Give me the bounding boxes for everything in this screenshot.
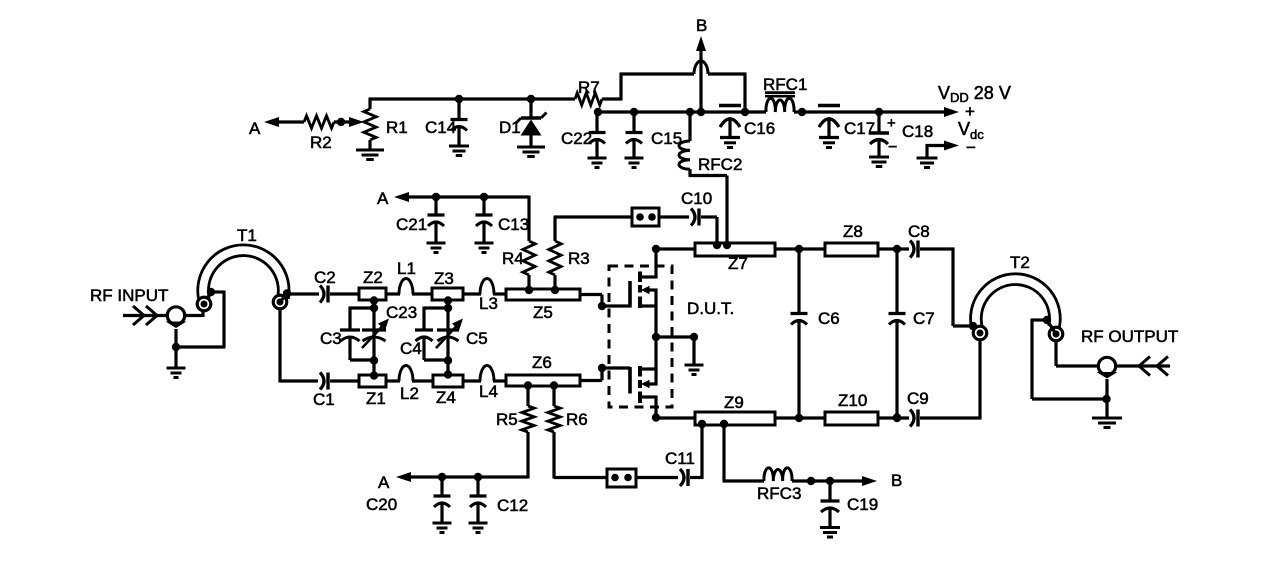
transistor Q1 drain lead <box>640 249 656 279</box>
svg-text:R4: R4 <box>502 249 524 268</box>
junction dot RFC2 <box>686 108 694 116</box>
inductor L3 <box>463 279 506 314</box>
junction dot T1 right tap <box>283 289 291 297</box>
wire output to ground <box>1105 379 1108 418</box>
transistor Q2 body arrow <box>641 369 658 388</box>
resistor R6 <box>548 387 588 479</box>
svg-text:Z9: Z9 <box>724 393 744 412</box>
feedthrough capacitor C16 <box>719 106 775 148</box>
wire C3 branch bottom <box>350 359 374 361</box>
wire T1 right down to C1 <box>280 308 318 383</box>
svg-text:T1: T1 <box>237 226 257 245</box>
svg-text:C1: C1 <box>313 390 335 409</box>
inductor RFC3 <box>757 468 801 503</box>
svg-text:Z7: Z7 <box>728 254 748 273</box>
wire DUT to Z7 <box>656 247 695 250</box>
svg-text:C15: C15 <box>651 129 682 148</box>
capacitor C3 <box>320 329 360 360</box>
ground below C21 <box>427 243 446 253</box>
svg-text:R6: R6 <box>566 410 588 429</box>
junction dot Z3 bottom <box>444 296 452 304</box>
transistor Q2 gate bar <box>628 367 632 394</box>
svg-text:C21: C21 <box>396 215 427 234</box>
wire Z9 to Z10 <box>775 416 825 419</box>
junction dot Z1 top <box>370 371 378 379</box>
svg-text:Z2: Z2 <box>363 268 383 287</box>
impedance Z2 <box>359 268 386 300</box>
Vdc negative ground arrow <box>917 141 960 168</box>
junction dot RFC3 out <box>807 477 815 485</box>
svg-text:C6: C6 <box>818 309 840 328</box>
capacitor C18 (electrolytic) <box>869 112 933 156</box>
wire C3 branch top <box>349 307 374 331</box>
junction dot C20 <box>438 473 446 481</box>
inductor L2 <box>386 366 433 404</box>
capacitor C10 <box>659 189 717 244</box>
VDD terminal arrow <box>938 83 1011 121</box>
svg-text:C19: C19 <box>847 495 878 514</box>
junction dot Q2 drain <box>652 413 660 421</box>
transistor Q1 channel <box>638 272 642 309</box>
wire Z3 to Z4 (C5 branch) <box>446 300 449 375</box>
junction dot C18 <box>875 108 883 116</box>
ground below C14 <box>449 146 469 156</box>
junction dot R3-Z5 <box>551 286 559 294</box>
wire T1 right center tap <box>280 294 287 303</box>
svg-text:C7: C7 <box>913 309 935 328</box>
junction dot C6 bottom <box>795 414 803 422</box>
impedance Z10 <box>825 391 878 425</box>
DUT dashed box <box>609 266 672 407</box>
transistor Q1 source lead <box>640 304 656 307</box>
svg-text:R2: R2 <box>310 133 332 152</box>
svg-text:L3: L3 <box>479 294 498 313</box>
junction dot T1 left tap <box>207 288 215 296</box>
capacitor C9 <box>907 389 929 427</box>
wire Z7 to Z8 <box>775 247 825 250</box>
impedance Z6 <box>506 353 580 386</box>
wire top bias rail <box>369 97 576 100</box>
svg-text:Z4: Z4 <box>436 388 456 407</box>
ground below C20 <box>433 523 452 533</box>
node A (top left arrow) <box>249 117 304 138</box>
junction dot Q1 drain <box>652 245 660 253</box>
capacitor C12 <box>470 477 529 522</box>
junction dot RFC2-Z7 <box>723 241 731 249</box>
ground below C18 <box>869 157 889 167</box>
impedance Z9 <box>695 393 775 425</box>
transformer T2 left terminal <box>973 326 987 340</box>
svg-text:+: + <box>887 115 896 132</box>
junction dot source ground <box>690 333 698 341</box>
ground below C19 <box>820 528 840 538</box>
junction dot common source <box>652 333 660 341</box>
Vdc label <box>958 119 984 157</box>
ground below C15 <box>625 158 644 168</box>
wire VDD rail right <box>794 110 951 113</box>
ground below D1 <box>517 147 545 157</box>
svg-text:C17: C17 <box>844 119 875 138</box>
wire source to ground <box>656 335 694 338</box>
node B (top arrow) <box>696 16 707 112</box>
svg-text:RFC1: RFC1 <box>763 75 807 94</box>
svg-text:C22: C22 <box>561 129 592 148</box>
wire Z8 to C8 <box>878 247 909 250</box>
feedthrough capacitor C17 <box>818 106 875 148</box>
transformer T1 left terminal <box>197 297 211 311</box>
resistor R1 (vertical) <box>364 99 408 149</box>
wire T2 right center tap <box>1047 320 1056 334</box>
svg-text:A: A <box>378 473 390 492</box>
junction dot C9 left <box>893 414 901 422</box>
svg-text:RFC2: RFC2 <box>698 155 742 174</box>
svg-text:L4: L4 <box>479 382 498 401</box>
node B (bottom arrow) <box>862 471 902 490</box>
RF input connector base triangle <box>166 322 187 329</box>
transistor Q1 gate bar <box>628 281 632 308</box>
inductor RFC2 <box>679 112 742 244</box>
junction dot R5-Z6 <box>524 381 532 389</box>
junction dot C15 <box>630 108 638 116</box>
junction dot Z2 bottom <box>370 296 378 304</box>
wire input circle to T1 <box>185 308 204 317</box>
junction dot C7 top <box>893 245 901 253</box>
ferrite bead (gate) <box>632 208 659 226</box>
capacitor C15 <box>626 112 683 157</box>
junction dot R4-Z5 <box>525 286 533 294</box>
junction dot C4 branch top <box>444 304 452 312</box>
impedance Z1 <box>359 375 386 408</box>
RF output connector base triangle <box>1097 372 1118 379</box>
variable capacitor C23 <box>362 303 417 348</box>
wire T2 right down to output <box>1056 340 1098 366</box>
svg-text:C13: C13 <box>498 215 529 234</box>
svg-text:B: B <box>696 16 707 35</box>
svg-text:R1: R1 <box>386 118 408 137</box>
wire RFC3 to B <box>792 479 866 482</box>
capacitor C7 <box>889 249 935 418</box>
node A (mid arrow) <box>377 189 529 208</box>
svg-text:A: A <box>249 119 261 138</box>
svg-text:Z3: Z3 <box>434 269 454 288</box>
ground DUT source <box>685 365 704 375</box>
svg-text:R3: R3 <box>568 249 590 268</box>
svg-text:Z1: Z1 <box>366 389 386 408</box>
wire R2 to R1 wiper <box>334 120 352 123</box>
svg-text:RFC3: RFC3 <box>757 484 801 503</box>
RF output line with chevrons <box>1116 357 1171 376</box>
RF input connector circle <box>167 307 184 324</box>
capacitor C14 <box>425 99 468 146</box>
svg-text:RF INPUT: RF INPUT <box>90 286 168 305</box>
diode D1 (zener) <box>499 99 547 146</box>
variable capacitor C5 <box>436 319 488 349</box>
svg-text:B: B <box>891 471 902 490</box>
capacitor C21 <box>396 197 445 242</box>
junction dot C3 branch bottom <box>370 356 378 364</box>
svg-text:C5: C5 <box>466 329 488 348</box>
capacitor C20 <box>366 477 451 522</box>
resistor R2 <box>304 116 334 152</box>
wire C11 up to Z9 <box>700 424 703 479</box>
junction dot Z4 top <box>444 370 452 378</box>
wire tap to T2 left center <box>973 326 980 332</box>
junction dot T2 left tap <box>969 322 977 330</box>
capacitor C2 <box>314 268 359 303</box>
RF OUTPUT label <box>1081 327 1178 346</box>
ferrite bead (output) <box>607 469 636 487</box>
svg-text:RF OUTPUT: RF OUTPUT <box>1081 327 1178 346</box>
capacitor C1 <box>313 373 359 410</box>
junction dot after RFC1 <box>798 108 806 116</box>
svg-text:C9: C9 <box>907 389 929 408</box>
RF INPUT label <box>90 286 168 305</box>
resistor R7 <box>575 78 602 105</box>
junction dot C14 top <box>455 95 463 103</box>
wire C4 branch bottom <box>424 358 448 361</box>
junction dot C7 bottom <box>893 413 901 421</box>
capacitor C22 <box>561 112 606 157</box>
svg-text:C12: C12 <box>497 496 528 515</box>
svg-text:R5: R5 <box>496 410 518 429</box>
transformer T2 coax loop <box>976 253 1055 328</box>
svg-text:D.U.T.: D.U.T. <box>687 299 734 318</box>
impedance Z4 <box>433 375 463 407</box>
wire C9 to T2 shield <box>920 416 982 419</box>
junction dot C13 <box>480 193 488 201</box>
junction dot Z9 tap 1 <box>698 420 706 428</box>
svg-text:Z8: Z8 <box>843 222 863 241</box>
impedance Z5 <box>506 289 580 322</box>
transistor Q1 body arrow <box>641 286 658 337</box>
capacitor C11 <box>636 449 702 486</box>
svg-text:C4: C4 <box>400 339 422 358</box>
svg-text:L2: L2 <box>400 384 419 403</box>
wire tap to T1 left center <box>205 292 212 303</box>
ground below C12 <box>469 523 488 533</box>
ground below C13 <box>475 243 494 253</box>
wire Z6 to DUT gate 2 <box>580 368 630 381</box>
junction dot input ground <box>172 343 180 351</box>
wire Z5 to DUT gate 1 <box>580 295 630 307</box>
junction dot C4 branch bottom <box>444 356 452 364</box>
wire input return loop <box>176 291 226 348</box>
RF output connector circle <box>1098 357 1115 374</box>
wire down to DUT ground <box>692 337 695 364</box>
transformer T1 coax loop <box>203 226 284 299</box>
junction dot gate 1 <box>598 302 606 310</box>
resistor R4 <box>502 196 535 292</box>
svg-text:C11: C11 <box>665 449 695 468</box>
junction dot Z9 tap 2 <box>720 420 728 428</box>
junction dot D1 top <box>527 95 535 103</box>
ground below R1 <box>356 150 384 160</box>
transistor Q2 source lead <box>640 337 656 371</box>
junction dot C6 top <box>795 245 803 253</box>
junction dot B wire <box>697 108 705 116</box>
junction dot C21 <box>432 193 440 201</box>
capacitor C19 <box>821 481 879 527</box>
resistor R3 <box>549 216 590 292</box>
ground RF input <box>167 368 186 378</box>
capacitor C13 <box>476 197 530 242</box>
resistor R5 <box>496 387 534 479</box>
junction dot C19 top <box>826 477 834 485</box>
svg-text:Z6: Z6 <box>532 353 552 372</box>
wire Z2 to Z1 (C23 branch) <box>372 300 375 376</box>
svg-text:L1: L1 <box>397 259 416 278</box>
wire T1 to C2 <box>287 292 319 295</box>
wire R6 to bead <box>554 476 607 479</box>
wire input to ground <box>174 329 177 367</box>
junction dot R2-R1 <box>337 118 345 126</box>
wire Z9 to RFC3 <box>723 424 765 481</box>
capacitor C6 <box>791 249 840 418</box>
junction dot C12 <box>474 473 482 481</box>
svg-text:C3: C3 <box>320 329 342 348</box>
junction dot C10-Z7 <box>713 241 721 249</box>
svg-text:C23: C23 <box>386 303 417 322</box>
svg-text:C16: C16 <box>744 119 775 138</box>
wire T2 tap return <box>1032 319 1107 400</box>
wire R7 to loop over B <box>602 61 747 112</box>
transformer T1 right terminal <box>273 295 287 309</box>
junction dot loop join <box>741 108 749 116</box>
svg-text:T2: T2 <box>1010 253 1030 272</box>
node A (bottom arrow) <box>378 472 528 492</box>
impedance Z8 <box>825 222 878 256</box>
svg-text:C20: C20 <box>366 495 397 514</box>
junction dot T2 right tap <box>1043 316 1051 324</box>
wire R3 to ferrite bead <box>555 215 632 218</box>
junction dot gate 2 <box>598 364 606 372</box>
RF input line with chevrons <box>123 306 168 325</box>
wire C4 branch top <box>424 307 448 331</box>
capacitor C4 <box>400 330 433 360</box>
svg-text:C18: C18 <box>902 122 933 141</box>
wiper arrow into R1 <box>349 117 364 127</box>
svg-text:Z10: Z10 <box>838 391 867 410</box>
junction dot R6-Z6 <box>550 381 558 389</box>
junction dot output ground <box>1102 395 1110 403</box>
svg-text:D1: D1 <box>499 118 521 137</box>
junction dot C3 branch top <box>370 304 378 312</box>
D.U.T. label <box>687 299 734 318</box>
wire C8 to T2 <box>920 249 973 326</box>
impedance Z7 <box>695 243 775 273</box>
impedance Z3 <box>432 269 463 300</box>
inductor RFC1 <box>763 75 807 112</box>
ground RF output <box>1092 418 1122 428</box>
svg-text:A: A <box>377 189 389 208</box>
svg-text:C10: C10 <box>681 189 712 208</box>
capacitor C8 <box>908 222 930 258</box>
transistor Q2 drain lead <box>640 396 656 419</box>
svg-text:−: − <box>966 138 976 157</box>
ground below C22 <box>588 158 607 168</box>
wire T2 left down <box>978 339 981 418</box>
svg-text:R7: R7 <box>578 78 600 97</box>
wire DUT to Z9 <box>656 416 695 419</box>
inductor L1 <box>386 259 432 294</box>
wire VDD rail left <box>598 110 766 113</box>
transistor Q2 channel <box>638 366 642 403</box>
inductor L4 <box>463 366 506 402</box>
svg-text:C8: C8 <box>908 222 930 241</box>
svg-text:C14: C14 <box>425 118 456 137</box>
junction dot C22 <box>594 108 602 116</box>
wire Z10 to C9 <box>878 416 909 419</box>
svg-text:−: − <box>888 139 897 156</box>
svg-text:C2: C2 <box>314 268 336 287</box>
svg-text:Z5: Z5 <box>533 303 553 322</box>
transformer T2 right terminal <box>1049 327 1063 341</box>
